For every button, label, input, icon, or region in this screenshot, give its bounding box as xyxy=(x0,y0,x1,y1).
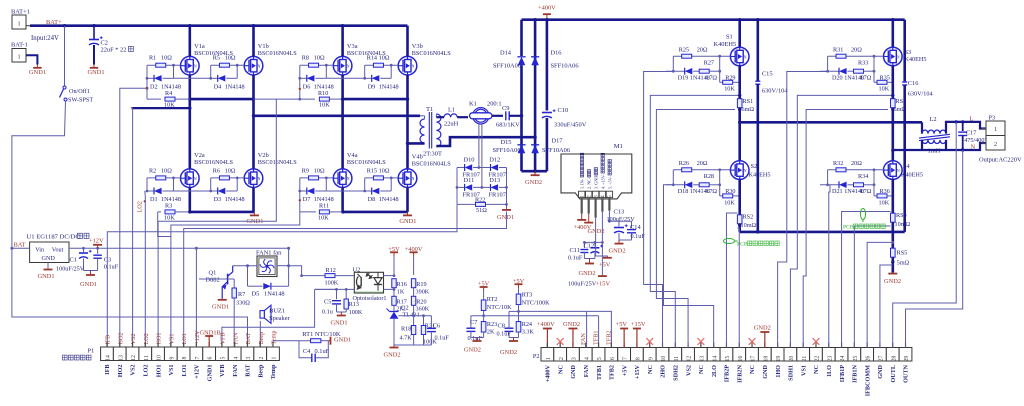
wire secondary bottom xyxy=(435,145,437,148)
note PCB trace separation 1 xyxy=(724,238,735,243)
svg-text:1LO: 1LO xyxy=(826,365,833,377)
diode D7 xyxy=(299,178,301,191)
net +5V xyxy=(603,257,612,259)
svg-text:IFB2N: IFB2N xyxy=(736,364,743,382)
pin 15 of P2 xyxy=(720,348,733,362)
svg-text:10Ω: 10Ω xyxy=(225,55,236,62)
capacitor C7 0.1uF xyxy=(470,316,472,328)
wire GND return to P1 xyxy=(184,212,507,348)
svg-text:1N4148: 1N4148 xyxy=(264,291,285,298)
svg-text:26: 26 xyxy=(866,356,872,362)
pin stubs P1 xyxy=(106,342,108,347)
pin 20 of P2 xyxy=(784,348,797,362)
capacitor C15 630V/104 xyxy=(756,20,759,81)
svg-text:4: 4 xyxy=(600,195,606,198)
svg-text:22uF * 22: 22uF * 22 xyxy=(101,47,127,54)
resistor R31 xyxy=(828,55,884,57)
svg-text:IFB: IFB xyxy=(105,335,112,345)
svg-text:R22: R22 xyxy=(475,196,485,203)
resistor R25 xyxy=(673,55,730,57)
resistor R23 2K xyxy=(481,322,486,333)
wire ground return bus xyxy=(740,231,905,234)
svg-text:2. NC-: 2. NC- xyxy=(587,177,592,189)
diode D6 xyxy=(299,65,301,78)
ground GND2 at P2 pin18 xyxy=(760,331,769,333)
net +12V xyxy=(93,244,102,246)
capacitor C1 100uF/25V xyxy=(82,247,85,250)
capacitor C8 0.1uF xyxy=(508,311,510,328)
svg-text:2: 2 xyxy=(559,357,565,360)
svg-text:N: N xyxy=(258,177,261,181)
net +400V at M1 pin1 xyxy=(581,214,583,220)
note PCB trace separation 2 xyxy=(860,209,865,220)
wire to R12 xyxy=(289,266,302,276)
resistor R4 xyxy=(146,88,148,99)
svg-text:C14: C14 xyxy=(630,224,641,231)
svg-text:R30: R30 xyxy=(725,188,735,195)
svg-text:20Ω: 20Ω xyxy=(697,160,708,167)
diode D1 xyxy=(146,178,148,191)
svg-text:14: 14 xyxy=(712,356,718,362)
svg-text:R12: R12 xyxy=(326,267,336,274)
svg-text:14: 14 xyxy=(106,355,112,361)
net +400V at P2 pin1 xyxy=(546,329,548,348)
pin 11 of P1 xyxy=(139,347,152,361)
pin 7 of P1 xyxy=(190,347,203,361)
ground GND1 at Q1 emitter xyxy=(221,299,223,300)
resistor R1 xyxy=(147,64,181,66)
svg-text:R4: R4 xyxy=(165,90,172,97)
svg-text:10K: 10K xyxy=(879,86,890,93)
svg-text:2: 2 xyxy=(259,356,265,359)
svg-text:C7: C7 xyxy=(470,319,478,326)
diode D21 xyxy=(827,170,829,185)
svg-text:IFB1P: IFB1P xyxy=(839,365,846,382)
svg-text:R16: R16 xyxy=(397,281,407,288)
wire source-drain column xyxy=(341,75,344,169)
svg-text:D14: D14 xyxy=(500,50,512,57)
pin 1 of P2 xyxy=(541,348,554,362)
svg-text:R23: R23 xyxy=(487,321,497,328)
svg-text:100K: 100K xyxy=(325,280,339,287)
svg-text:100uF/25V: 100uF/25V xyxy=(56,266,85,273)
svg-text:NTC/10K: NTC/10K xyxy=(487,304,512,311)
svg-text:2: 2 xyxy=(587,195,593,198)
diode D19 xyxy=(672,56,674,71)
svg-text:TFB1: TFB1 xyxy=(596,365,603,380)
maroon junction markers xyxy=(146,87,148,89)
svg-text:U1 EG1187 DC/DC: U1 EG1187 DC/DC xyxy=(27,234,81,241)
svg-text:+5V: +5V xyxy=(478,281,490,288)
svg-text:16: 16 xyxy=(738,356,744,362)
ground GND2 xyxy=(513,338,515,342)
svg-text:R8: R8 xyxy=(302,55,309,62)
svg-text:GND1: GND1 xyxy=(497,214,514,221)
svg-text:D9: D9 xyxy=(368,83,376,90)
wire source to gnd bus xyxy=(341,188,344,212)
resistor RS3 6mOhm xyxy=(891,66,894,100)
diode D9 xyxy=(364,65,366,78)
svg-text:P3: P3 xyxy=(989,115,996,122)
ground GND1 xyxy=(253,212,255,216)
svg-text:N: N xyxy=(897,55,900,59)
net +5V xyxy=(390,251,398,253)
svg-text:GND2: GND2 xyxy=(563,321,580,328)
svg-text:R18: R18 xyxy=(401,326,411,333)
svg-text:6: 6 xyxy=(610,357,616,360)
diode D15 SFF10A06 xyxy=(518,145,526,154)
svg-text:C17: C17 xyxy=(966,130,977,137)
svg-text:TFB2: TFB2 xyxy=(605,331,612,345)
svg-text:0.1uF: 0.1uF xyxy=(435,335,450,342)
svg-text:+5V: +5V xyxy=(513,278,525,285)
svg-text:PCB: PCB xyxy=(737,242,748,248)
wire gnd bus segments y=212 xyxy=(190,211,255,214)
wire Beep pin2 xyxy=(259,321,261,347)
svg-text:19: 19 xyxy=(776,356,782,362)
svg-text:24: 24 xyxy=(840,356,846,362)
wire R3 feed xyxy=(158,212,171,237)
svg-text:R14: R14 xyxy=(367,55,377,62)
pin 17 of P2 xyxy=(746,348,759,362)
ground GND1 under C5 xyxy=(340,312,342,316)
svg-text:0.1uF: 0.1uF xyxy=(315,348,330,355)
svg-text:GND2: GND2 xyxy=(464,347,481,354)
wire source to gnd bus xyxy=(189,188,192,212)
svg-text:K40EH5: K40EH5 xyxy=(905,56,927,63)
svg-text:23: 23 xyxy=(827,356,833,362)
svg-text:6: 6 xyxy=(208,356,214,359)
wire source to gnd bus xyxy=(406,188,409,212)
ground GND2 xyxy=(394,344,431,346)
svg-text:4.7Ω: 4.7Ω xyxy=(859,75,872,82)
svg-text:VFB: VFB xyxy=(219,365,226,377)
svg-text:10mΩ: 10mΩ xyxy=(895,221,911,228)
svg-text:FR107: FR107 xyxy=(489,191,507,198)
pin 14 of P2 xyxy=(707,348,720,362)
svg-text:Input:24V: Input:24V xyxy=(31,35,59,42)
pin 3 of P1 xyxy=(241,347,254,361)
svg-text:FAN: FAN xyxy=(583,364,590,377)
svg-text:R1: R1 xyxy=(149,55,156,62)
svg-text:10Ω: 10Ω xyxy=(379,167,390,174)
pin 21 of P2 xyxy=(797,348,810,362)
ground GND2 under C13/C14 xyxy=(618,240,620,244)
svg-text:BSC016N04LS: BSC016N04LS xyxy=(258,50,297,57)
resistor R35 10K xyxy=(873,71,875,82)
svg-text:L: L xyxy=(970,116,974,123)
svg-text:27: 27 xyxy=(879,356,885,362)
svg-text:1N4148: 1N4148 xyxy=(379,83,399,90)
svg-text:GND: GND xyxy=(877,364,884,378)
svg-text:Speaker: Speaker xyxy=(269,315,290,322)
pin 13 of P1 xyxy=(113,347,126,361)
svg-text:FAN: FAN xyxy=(232,364,239,377)
svg-text:TL431: TL431 xyxy=(402,312,419,319)
svg-text:C8: C8 xyxy=(498,322,505,329)
svg-text:M1: M1 xyxy=(614,143,623,150)
svg-text:RS1: RS1 xyxy=(743,98,754,105)
resistor RS4 10mOhm xyxy=(891,179,894,213)
svg-text:GND1: GND1 xyxy=(206,365,213,382)
svg-text:10K: 10K xyxy=(724,86,735,93)
svg-text:8: 8 xyxy=(636,357,642,360)
svg-text:D5: D5 xyxy=(252,291,260,298)
svg-text:Q2: Q2 xyxy=(401,305,409,312)
svg-text:10: 10 xyxy=(661,356,667,362)
wire fan left xyxy=(233,265,257,267)
resistor R33 4.7 xyxy=(848,70,854,72)
resistor R21 100K xyxy=(423,316,425,325)
thermistor RT2 NTC/10K xyxy=(481,300,486,311)
svg-text:1: 1 xyxy=(272,356,278,359)
svg-text:10Ω: 10Ω xyxy=(225,167,236,174)
svg-text:K40EH5: K40EH5 xyxy=(749,172,771,179)
svg-text:Output:AC220V: Output:AC220V xyxy=(979,157,1022,164)
pin 2 of P1 xyxy=(254,347,267,361)
resistor R7 330 xyxy=(233,279,235,288)
pin 28 of P2 xyxy=(886,348,899,362)
svg-text:BAT: BAT xyxy=(245,333,252,345)
ground GND2 xyxy=(476,338,478,342)
ground GND2 xyxy=(534,171,536,175)
pin 6 of P1 xyxy=(203,347,216,361)
svg-text:BSC016N04LS: BSC016N04LS xyxy=(194,159,233,166)
svg-text:HO2: HO2 xyxy=(117,332,124,344)
svg-text:330uF/450V: 330uF/450V xyxy=(554,122,587,129)
pin 7 of P2 xyxy=(618,348,631,362)
svg-text:D2: D2 xyxy=(150,83,158,90)
svg-text:4: 4 xyxy=(233,356,239,359)
svg-text:+12V: +12V xyxy=(89,238,104,245)
wire VFB xyxy=(315,288,337,290)
svg-text:R32: R32 xyxy=(833,160,843,167)
svg-text:R20: R20 xyxy=(416,299,426,306)
wire +12V pin7 xyxy=(195,248,197,347)
svg-text:1N4148: 1N4148 xyxy=(225,196,245,203)
resistor RS1 6mOhm xyxy=(738,66,741,100)
svg-text:R10: R10 xyxy=(318,90,328,97)
svg-text:Vout: Vout xyxy=(52,247,64,254)
svg-text:5: 5 xyxy=(597,357,603,360)
svg-text:R5: R5 xyxy=(213,55,220,62)
svg-text:10: 10 xyxy=(157,355,163,361)
svg-text:VS2: VS2 xyxy=(130,333,137,344)
pin 5 of P2 xyxy=(592,348,605,362)
svg-text:1K: 1K xyxy=(397,289,405,296)
svg-text:R11: R11 xyxy=(319,203,329,210)
wire bridge output node A xyxy=(740,121,922,124)
buzzer BUZ1 Speaker xyxy=(260,311,264,319)
resistor R26 xyxy=(673,169,730,171)
svg-text:R2: R2 xyxy=(149,167,156,174)
svg-text:GND2: GND2 xyxy=(525,179,542,186)
svg-text:HO2: HO2 xyxy=(117,365,124,378)
pin 12 of P2 xyxy=(682,348,695,362)
svg-text:3: 3 xyxy=(246,356,252,359)
svg-text:100uF/25V: 100uF/25V xyxy=(568,281,597,288)
svg-text:20Ω: 20Ω xyxy=(851,160,862,167)
wire source-drain column xyxy=(252,75,255,169)
svg-text:BAT: BAT xyxy=(245,364,252,377)
pin 5 of M1 xyxy=(606,191,612,197)
svg-text:C10: C10 xyxy=(558,107,569,114)
resistor R3 xyxy=(158,211,161,213)
svg-text:D11: D11 xyxy=(464,177,475,184)
resistor R30 10K xyxy=(719,185,721,196)
diode D17 SFF10A06 xyxy=(531,145,539,154)
svg-text:C5: C5 xyxy=(324,299,331,306)
svg-text:6mΩ: 6mΩ xyxy=(742,106,755,113)
svg-text:100uF/25V: 100uF/25V xyxy=(607,216,636,223)
svg-text:SW-SPST: SW-SPST xyxy=(68,97,93,104)
diode D8 xyxy=(364,178,366,191)
svg-text:17: 17 xyxy=(751,356,757,362)
svg-text:21: 21 xyxy=(802,356,808,362)
resistor R18 4.7K xyxy=(413,316,415,325)
pin 6 of P2 xyxy=(605,348,618,362)
wire VS1 pin12 xyxy=(131,108,132,347)
svg-text:12: 12 xyxy=(131,355,137,361)
wire BAT+ bus xyxy=(30,24,408,27)
pin 23 of P2 xyxy=(822,348,835,362)
svg-text:10K: 10K xyxy=(319,102,330,109)
ground GND1 xyxy=(407,212,409,216)
pin 19 of P2 xyxy=(771,348,784,362)
resistor R15 xyxy=(365,177,399,179)
pin 22 of P2 xyxy=(810,348,823,362)
diode D3 xyxy=(210,178,212,191)
pin 2 of P2 xyxy=(554,348,567,362)
svg-text:R34: R34 xyxy=(858,173,868,180)
svg-text:2LO: 2LO xyxy=(711,365,718,377)
svg-text:330Ω: 330Ω xyxy=(236,300,250,307)
svg-text:VS1: VS1 xyxy=(800,365,807,376)
svg-text:4.7Ω: 4.7Ω xyxy=(705,188,718,195)
svg-text:R7: R7 xyxy=(238,291,245,298)
svg-text:VS1: VS1 xyxy=(168,365,175,376)
diode D16 SFF10A06 xyxy=(534,20,537,172)
svg-text:15: 15 xyxy=(725,356,731,362)
pin 26 of P2 xyxy=(861,348,874,362)
svg-text:N: N xyxy=(744,169,747,173)
pin 4 of P2 xyxy=(579,348,592,362)
wire node-A bus y=99 xyxy=(190,98,254,101)
svg-text:D16: D16 xyxy=(551,50,562,57)
wires OUTL OUTN xyxy=(893,122,956,348)
svg-text:10K: 10K xyxy=(318,215,329,222)
svg-text:BSC016N04LS: BSC016N04LS xyxy=(412,50,451,57)
svg-text:GND2: GND2 xyxy=(384,352,401,359)
pin 4 of P1 xyxy=(228,347,241,361)
svg-text:N: N xyxy=(347,177,350,181)
ground GND2 at P2 pin3 xyxy=(568,328,577,330)
svg-text:GND1: GND1 xyxy=(331,320,348,327)
wire secondary top xyxy=(435,114,437,117)
diode D18 xyxy=(672,170,674,185)
svg-text:N: N xyxy=(194,177,197,181)
svg-text:IFB: IFB xyxy=(104,365,111,375)
svg-text:D882: D882 xyxy=(206,277,220,284)
svg-text:0.1u: 0.1u xyxy=(322,309,333,316)
svg-text:BSC016N04LS: BSC016N04LS xyxy=(347,159,386,166)
svg-text:FAN1 fan: FAN1 fan xyxy=(256,250,282,257)
svg-text:D17: D17 xyxy=(552,138,564,145)
svg-text:BSC016N04LS: BSC016N04LS xyxy=(258,159,297,166)
ground GND1 under U1 xyxy=(47,263,49,269)
svg-text:NTC/100K: NTC/100K xyxy=(522,299,550,306)
svg-text:TFB2: TFB2 xyxy=(609,365,616,380)
pin 16 of P2 xyxy=(733,348,746,362)
svg-text:Beep: Beep xyxy=(258,332,265,345)
svg-text:N: N xyxy=(194,65,197,69)
svg-text:NC: NC xyxy=(557,365,564,374)
svg-text:N: N xyxy=(412,65,415,69)
svg-text:1N4148: 1N4148 xyxy=(379,196,399,203)
svg-text:R31: R31 xyxy=(833,46,843,53)
wire HO1 pin10 xyxy=(158,99,276,347)
resistor R10 xyxy=(254,98,316,100)
wire LO2 pin11 xyxy=(144,191,147,347)
svg-text:L2: L2 xyxy=(930,116,937,123)
pin stubs P2 xyxy=(546,343,548,348)
svg-text:5: 5 xyxy=(221,356,227,359)
svg-text:K1: K1 xyxy=(469,101,477,108)
svg-text:R24: R24 xyxy=(522,321,532,328)
svg-text:R28: R28 xyxy=(704,173,714,180)
svg-text:IFBCOMM: IFBCOMM xyxy=(864,365,871,396)
pin 3 of M1 xyxy=(592,191,598,197)
svg-text:LO2: LO2 xyxy=(143,333,150,344)
svg-text:GND: GND xyxy=(570,364,577,378)
svg-text:51Ω: 51Ω xyxy=(476,207,487,214)
svg-text:5. +5V-: 5. +5V- xyxy=(607,176,612,189)
capacitor C13 100uF/25V xyxy=(608,211,610,222)
svg-text:12: 12 xyxy=(687,356,693,362)
svg-text:10Ω: 10Ω xyxy=(314,167,325,174)
diode D14 SFF10A06 xyxy=(520,20,523,56)
wire source to gnd bus xyxy=(252,188,255,212)
svg-text:20Ω: 20Ω xyxy=(697,46,708,53)
svg-text:+5V: +5V xyxy=(388,246,400,253)
resistor R36 10K xyxy=(873,185,875,196)
svg-text:C11: C11 xyxy=(570,247,580,254)
resistor R12 100K xyxy=(302,275,325,277)
svg-text:13: 13 xyxy=(118,355,124,361)
svg-text:D7: D7 xyxy=(303,196,311,203)
svg-text:10Ω: 10Ω xyxy=(161,55,172,62)
wire drain xyxy=(406,26,409,57)
wire +12V rail xyxy=(69,247,289,249)
svg-text:10Ω: 10Ω xyxy=(314,55,325,62)
pin 14 of P1 xyxy=(101,347,114,361)
svg-text:L1: L1 xyxy=(448,107,455,114)
svg-text:100K: 100K xyxy=(349,309,363,316)
svg-text:R25: R25 xyxy=(679,46,689,53)
svg-text:N: N xyxy=(971,144,976,151)
svg-text:FAN: FAN xyxy=(580,333,587,345)
svg-text:SFF10A06: SFF10A06 xyxy=(551,63,579,70)
pin 10 of P2 xyxy=(656,348,669,362)
svg-text:D12: D12 xyxy=(489,157,500,164)
svg-text:4.7K: 4.7K xyxy=(400,335,413,342)
ground GND2 xyxy=(892,273,894,274)
svg-text:R36: R36 xyxy=(880,188,890,195)
svg-text:3: 3 xyxy=(572,357,578,360)
svg-text:IFB2P: IFB2P xyxy=(724,365,731,382)
svg-text:1HO: 1HO xyxy=(775,365,782,378)
wire opto right xyxy=(384,275,395,277)
